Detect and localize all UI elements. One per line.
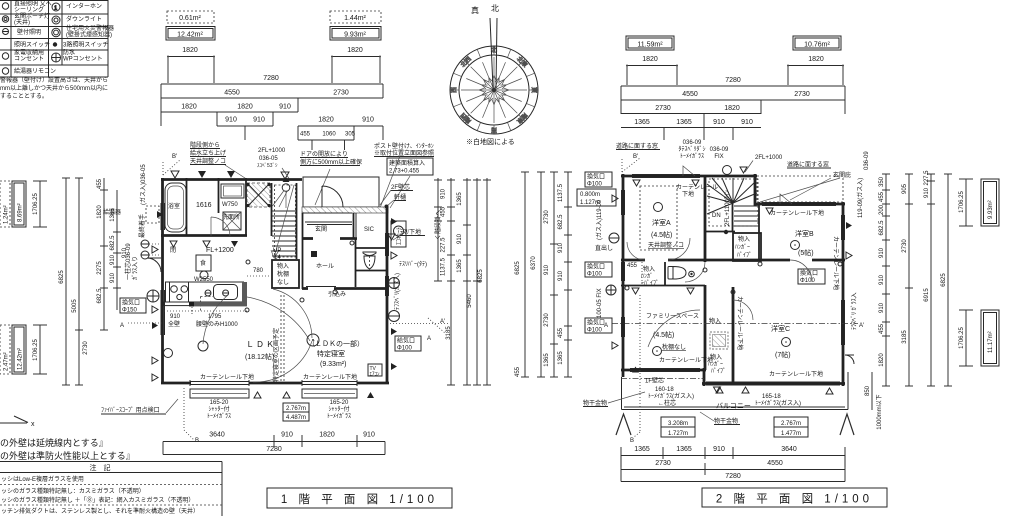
svg-text:Φ150: Φ150 (122, 308, 137, 314)
p1 left dim line 5005/2730 (75, 178, 83, 385)
leader lines (225, 156, 410, 208)
svg-text:ダウンライト: ダウンライト (66, 15, 102, 23)
svg-text:910: 910 (363, 432, 375, 439)
svg-text:く階段掛へ: く階段掛へ (434, 210, 442, 240)
legend note text (0, 76, 108, 100)
svg-text:1820: 1820 (237, 104, 253, 111)
svg-text:2.73+0.455: 2.73+0.455 (389, 169, 420, 175)
svg-text:910: 910 (225, 117, 237, 124)
vent circle symbols (389, 278, 400, 289)
p1 stair dashed upper outline (275, 185, 296, 257)
svg-text:6915: 6915 (924, 288, 930, 302)
p1 left wall (161, 178, 164, 384)
p1 bedroom labels (308, 339, 364, 368)
svg-text:7280: 7280 (725, 77, 741, 84)
p1 right dim line A (434, 178, 442, 281)
p1 right dim line B (447, 178, 455, 385)
svg-text:3路照明スイッチ: 3路照明スイッチ (63, 41, 108, 49)
svg-text:ﾊﾟｲﾌﾟ: ﾊﾟｲﾌﾟ (737, 252, 752, 259)
svg-text:910: 910 (741, 119, 753, 126)
p2 curtain label A (676, 184, 718, 198)
svg-text:910: 910 (281, 432, 293, 439)
svg-text:165-20: 165-20 (210, 400, 229, 406)
svg-text:6825: 6825 (478, 269, 484, 283)
svg-text:2730: 2730 (83, 341, 89, 355)
boxed measures left (661, 417, 695, 427)
svg-text:1820: 1820 (347, 47, 363, 54)
p1 switches small (245, 241, 354, 312)
svg-text:枕棚: 枕棚 (277, 270, 289, 278)
svg-text:ｰﾊﾟｲﾌﾟ: ｰﾊﾟｲﾌﾟ (641, 280, 659, 287)
svg-text:2275: 2275 (97, 261, 103, 275)
svg-text:洋室B: 洋室B (795, 229, 814, 238)
p1 entrance porch outline (303, 177, 379, 207)
svg-text:2730: 2730 (794, 91, 810, 98)
svg-text:コンセント: コンセント (14, 56, 44, 63)
p1 right dim line C (463, 178, 471, 385)
svg-text:南: 南 (491, 126, 497, 134)
p1 right dim line E (483, 178, 491, 385)
svg-text:2 階 平 面 図 1/100: 2 階 平 面 図 1/100 (716, 492, 873, 506)
svg-text:家電収納用: 家電収納用 (14, 49, 44, 57)
svg-text:2FL+1000: 2FL+1000 (755, 155, 783, 161)
svg-text:ファミリースペース: ファミリースペース (646, 313, 699, 320)
p2 closet hatched (710, 332, 728, 349)
area box 11.59 double (626, 36, 674, 50)
compass center dot (492, 88, 496, 92)
svg-text:7280: 7280 (725, 473, 741, 480)
svg-text:下地: 下地 (682, 190, 694, 198)
svg-text:910: 910 (879, 247, 885, 258)
area box 0.61 dashed (167, 11, 214, 23)
svg-text:B′: B′ (172, 154, 178, 160)
svg-text:1365: 1365 (676, 119, 692, 126)
svg-text:910: 910 (457, 233, 463, 244)
svg-text:ﾄｰﾒｲｶﾞﾗｽ(ガス入): ﾄｰﾒｲｶﾞﾗｽ(ガス入) (755, 399, 801, 407)
p1 kitchen counter (166, 282, 244, 302)
svg-text:カーテンレール下地: カーテンレール下地 (769, 370, 823, 378)
svg-text:1365: 1365 (544, 353, 550, 367)
svg-text:ッシのガラス種類特記無し ＋「⑧」表記：網入カスミガラス（不: ッシのガラス種類特記無し ＋「⑧」表記：網入カスミガラス（不透明） (1, 496, 194, 504)
p2 bottom-left window glazing (630, 369, 700, 372)
svg-text:カーテンレール下地: カーテンレール下地 (200, 373, 254, 381)
svg-text:2730: 2730 (902, 239, 908, 253)
p2 wall room C left (732, 287, 735, 384)
svg-text:玄関ポーチ灯: 玄関ポーチ灯 (14, 12, 50, 20)
svg-text:側方に500mm以上確保: 側方に500mm以上確保 (300, 158, 362, 166)
svg-text:ﾌｧｲﾊﾞｰｽｺｰﾌﾟ 用点検口: ﾌｧｲﾊﾞｰｽｺｰﾌﾟ 用点検口 (101, 406, 160, 414)
svg-text:玄関: 玄関 (315, 225, 327, 233)
p2 toilet room walls (621, 262, 705, 286)
p2 stair top light (723, 166, 732, 175)
svg-text:ドアの開放により: ドアの開放により (300, 150, 348, 158)
p2 top wall right (755, 203, 845, 206)
notes table (0, 462, 222, 516)
svg-text:ﾄｰﾒｲｶﾞﾗｽ: ﾄｰﾒｲｶﾞﾗｽ (207, 413, 231, 420)
p2 stairs dashed outline (709, 179, 758, 226)
p1 kitchen fridge (196, 255, 211, 271)
svg-text:1365: 1365 (558, 351, 564, 365)
p2 right wall marks (846, 252, 852, 259)
p1 wall below genkan (302, 237, 357, 240)
p2 right wall windows (842, 215, 845, 345)
svg-text:1365: 1365 (457, 259, 463, 273)
p1 toilet fixture (363, 252, 376, 256)
svg-text:W750: W750 (222, 202, 238, 208)
area box 1.44 dashed (330, 11, 381, 23)
svg-text:物干金物: 物干金物 (714, 417, 738, 425)
right pair upper (959, 179, 973, 226)
svg-text:3.208m: 3.208m (668, 421, 688, 427)
svg-text:455: 455 (515, 366, 521, 377)
p1 toilet room top wall (355, 247, 388, 249)
svg-text:(18.12帖): (18.12帖) (245, 352, 274, 361)
svg-text:165-18: 165-18 (762, 394, 781, 400)
svg-text:4.487m: 4.487m (286, 415, 306, 421)
svg-text:3185: 3185 (902, 330, 908, 344)
svg-text:ｼｬｯﾀｰ付: ｼｬｯﾀｰ付 (208, 405, 229, 413)
svg-text:1365: 1365 (457, 192, 463, 206)
svg-text:ｶﾞﾗｽ入り: ｶﾞﾗｽ入り (132, 256, 139, 280)
svg-text:0.800m: 0.800m (580, 192, 600, 198)
p2 room B labels (795, 229, 814, 257)
svg-text:2FL+1100ﾗｲﾝ: 2FL+1100ﾗｲﾝ (724, 190, 731, 226)
p2 spine wall vertical (704, 176, 707, 370)
svg-text:物入: 物入 (738, 235, 750, 243)
p2 balcony triangles (716, 387, 723, 393)
svg-text:(5帖): (5帖) (798, 248, 814, 257)
p2 left dim line 2 (537, 172, 545, 377)
svg-text:(9.33m²): (9.33m²) (320, 361, 346, 368)
p1 top wall (161, 178, 302, 181)
A' section marks (390, 318, 448, 333)
svg-text:なし: なし (277, 279, 289, 286)
compass outer circle (450, 46, 538, 134)
p2 stairs winder fan (707, 178, 757, 214)
svg-text:換気口: 換気口 (122, 299, 140, 307)
svg-text:注 記: 注 記 (90, 463, 111, 472)
svg-text:Φ100: Φ100 (587, 182, 602, 188)
p1 wall below hall (302, 287, 388, 290)
svg-text:ﾄｰﾒｲｶﾞﾗｽ: ﾄｰﾒｲｶﾞﾗｽ (327, 413, 351, 420)
svg-text:B: B (630, 438, 634, 444)
svg-text:FL+1200: FL+1200 (206, 247, 234, 254)
svg-text:682.5: 682.5 (97, 288, 103, 304)
svg-text:6825: 6825 (941, 273, 947, 287)
svg-text:Φ100: Φ100 (397, 346, 412, 352)
p2 toilet fixture (668, 267, 673, 280)
p1 right wall (386, 207, 389, 384)
svg-text:天井調整ノコ: 天井調整ノコ (190, 157, 226, 165)
svg-text:Φ100: Φ100 (587, 272, 602, 278)
svg-text:910: 910 (713, 446, 725, 453)
svg-text:910: 910 (170, 314, 181, 320)
p1 stair left wall (271, 183, 273, 236)
p1 vanity box (223, 212, 241, 230)
svg-text:カーテンレール下地: カーテンレール下地 (736, 296, 744, 350)
svg-text:1706.25: 1706.25 (33, 193, 39, 215)
p2 A-A section dash-dot (612, 323, 858, 325)
svg-text:ｴｺｷｭｰﾄ: ｴｺｷｭｰﾄ (396, 227, 403, 245)
svg-text:枕棚なし: 枕棚なし (662, 343, 686, 351)
svg-text:換気口: 換気口 (587, 173, 605, 181)
svg-text:6370: 6370 (531, 256, 537, 270)
svg-text:3640: 3640 (781, 446, 797, 453)
p2 left dim line 1 (521, 172, 529, 377)
svg-text:12.42m²: 12.42m² (177, 32, 203, 39)
p1 wall genkan/SIC (353, 213, 355, 238)
p1 left dim line inner (100, 178, 108, 330)
svg-text:682.5: 682.5 (879, 220, 885, 236)
p2 left wall (622, 174, 625, 377)
svg-text:1365: 1365 (676, 446, 692, 453)
x axis marker (0, 416, 28, 423)
svg-text:9.93m²: 9.93m² (344, 32, 366, 39)
svg-text:物入: 物入 (709, 317, 721, 325)
svg-text:6825: 6825 (59, 270, 65, 284)
svg-text:(7帖): (7帖) (775, 350, 791, 359)
note post/interphone (374, 142, 434, 157)
svg-text:1.24m²: 1.24m² (4, 205, 10, 224)
svg-text:1820: 1820 (182, 47, 198, 54)
area box 10.76 double (793, 36, 841, 50)
svg-text:真: 真 (471, 5, 479, 15)
p1 kitchen half wall hatch (164, 302, 190, 306)
svg-text:1 階 平 面 図 1/100: 1 階 平 面 図 1/100 (281, 492, 438, 506)
p1 wall wash/laundry divider (218, 178, 220, 213)
svg-text:ﾀﾃｽﾍﾞﾘﾀﾞｼ: ﾀﾃｽﾍﾞﾘﾀﾞｼ (678, 146, 705, 153)
svg-text:住宅用火災警報器: 住宅用火災警報器 (66, 24, 114, 32)
legend icons column2 (52, 3, 61, 62)
tv/eco boxes inside near wall (368, 364, 382, 376)
svg-text:780: 780 (253, 268, 264, 274)
p2 left wall symbols (609, 233, 619, 243)
svg-text:2730: 2730 (544, 210, 550, 224)
svg-text:給湯器リモコン: 給湯器リモコン (14, 67, 56, 75)
svg-text:305: 305 (345, 132, 356, 138)
svg-text:ﾃｽﾘﾊﾞｰ(ﾀﾃ): ﾃｽﾘﾊﾞｰ(ﾀﾃ) (399, 261, 427, 268)
p1 left dim line outer 6825 (62, 178, 70, 385)
p1 stair right wall (296, 183, 298, 259)
svg-text:の外壁は延焼線内とする』: の外壁は延焼線内とする』 (0, 437, 108, 448)
svg-text:バルコニー: バルコニー (716, 402, 751, 410)
compass inner circle (459, 55, 529, 125)
p1 bath door arc (211, 217, 230, 236)
p2 wall triangles (633, 180, 640, 186)
p2 step wall bottom (703, 368, 706, 386)
p1 stairwell top fixture (282, 184, 290, 192)
p2 balcony texts (648, 387, 801, 407)
B section dotted (184, 388, 194, 440)
svg-text:西: 西 (451, 87, 458, 93)
svg-text:の外壁は準防火性能以上とする』: の外壁は準防火性能以上とする』 (0, 450, 135, 461)
svg-text:160-18: 160-18 (655, 387, 674, 393)
note window type (678, 140, 705, 160)
p2 left dim line 4 (564, 172, 572, 377)
svg-text:警報器（壁付け）設置高さは、天井から: 警報器（壁付け）設置高さは、天井から (0, 76, 108, 84)
svg-text:ｼｬｯﾀｰ付: ｼｬｯﾀｰ付 (328, 405, 349, 413)
p2 balcony right dims (871, 372, 873, 410)
svg-text:物入: 物入 (643, 265, 655, 273)
svg-text:1000mm以下: 1000mm以下 (876, 394, 883, 429)
svg-text:防水: 防水 (63, 49, 75, 57)
svg-text:特定寝室: 特定寝室 (317, 349, 345, 358)
A section dashed (128, 322, 162, 324)
p2 right dim line D (944, 174, 952, 386)
svg-text:WPコンセント: WPコンセント (63, 56, 103, 63)
svg-text:軒樋: 軒樋 (394, 193, 406, 201)
p1 stair hatched square (247, 183, 270, 207)
svg-text:1820: 1820 (879, 353, 885, 367)
svg-text:※取付位置立面図参照: ※取付位置立面図参照 (374, 149, 434, 157)
svg-text:682.5: 682.5 (110, 235, 116, 251)
true north lines (490, 18, 493, 88)
p2 window swing bumps outside top (683, 166, 792, 204)
left wall circle symbols (141, 240, 149, 259)
svg-text:11.17m²: 11.17m² (988, 331, 994, 353)
svg-text:165-20: 165-20 (330, 400, 349, 406)
svg-text:910: 910 (362, 117, 374, 124)
kankiko box left (120, 298, 146, 313)
svg-text:ＬＤＫ: ＬＤＫ (246, 340, 276, 349)
svg-text:1706.25: 1706.25 (959, 191, 965, 213)
svg-text:1.477m: 1.477m (781, 431, 801, 437)
p2 room A dashed ceiling (640, 186, 677, 250)
ecocute unit (391, 221, 406, 247)
svg-text:2.767m: 2.767m (286, 406, 306, 412)
svg-text:換気口: 換気口 (587, 319, 605, 327)
p1 washer W750 (221, 184, 244, 198)
svg-text:ｴｱｺﾝ: ｴｱｺﾝ (370, 372, 381, 378)
left wall door arc (147, 258, 161, 272)
svg-text:道路に面する窓: 道路に面する窓 (616, 142, 658, 150)
p1 wall hall left (302, 213, 304, 289)
svg-text:1: 1 (54, 6, 57, 12)
p2 top right window glazing (762, 203, 836, 206)
right wall triangles (391, 218, 397, 225)
svg-text:036-09: 036-09 (864, 151, 870, 170)
svg-text:浴室: 浴室 (168, 202, 180, 210)
svg-text:FIX: FIX (714, 154, 723, 160)
p1 SIC shelf (355, 213, 357, 237)
svg-text:ﾊﾟｲﾌﾟ: ﾊﾟｲﾌﾟ (711, 368, 726, 375)
svg-text:Φ100: Φ100 (587, 328, 602, 334)
svg-text:mm以上離しかつ天井から500mm以内に: mm以上離しかつ天井から500mm以内に (0, 84, 108, 92)
svg-text:910: 910 (879, 302, 885, 313)
svg-text:1820: 1820 (318, 117, 334, 124)
p2 stairs treads right (734, 206, 759, 226)
svg-text:910: 910 (713, 119, 725, 126)
p2 kanki box 1 (585, 172, 612, 187)
svg-text:1706.25: 1706.25 (33, 339, 39, 361)
svg-text:シーリング: シーリング (14, 6, 44, 14)
svg-text:A: A (120, 323, 124, 329)
p1 genkan upper step lines (302, 213, 352, 225)
svg-text:1.44m²: 1.44m² (344, 15, 366, 22)
svg-text:910: 910 (253, 117, 265, 124)
svg-text:ﾄｰﾒｲｶﾞﾗｽ(ガス入): ﾄｰﾒｲｶﾞﾗｽ(ガス入) (648, 392, 694, 400)
area box 9.93 double (330, 27, 381, 41)
svg-text:9.93m²: 9.93m² (988, 200, 994, 219)
svg-text:455: 455 (558, 327, 564, 338)
svg-text:200: 200 (879, 204, 885, 215)
p1 black node (311, 251, 317, 257)
left area box pair upper (0, 181, 10, 227)
svg-text:(天井): (天井) (14, 18, 30, 26)
svg-text:036-09: 036-09 (710, 147, 729, 153)
p2 left wall windows (622, 190, 625, 337)
svg-text:5005: 5005 (72, 299, 78, 313)
svg-text:洗面所: 洗面所 (222, 213, 240, 221)
svg-text:給気口: 給気口 (397, 337, 415, 345)
p2 toilet room labels (641, 265, 659, 287)
svg-text:4550: 4550 (682, 91, 698, 98)
svg-text:換気口: 換気口 (587, 263, 605, 271)
svg-text:道路に面する窓: 道路に面する窓 (787, 161, 829, 169)
svg-text:(ガス入)036-05: (ガス入)036-05 (139, 164, 147, 205)
svg-text:建築面積算入: 建築面積算入 (389, 159, 425, 167)
p2 right dim line A (882, 174, 890, 386)
svg-text:2730: 2730 (544, 313, 550, 327)
p2 top wall window glazing left (632, 175, 700, 178)
svg-text:Φ100: Φ100 (800, 278, 815, 284)
svg-text:2730: 2730 (655, 105, 671, 112)
p1 wall washroom right (245, 178, 247, 236)
svg-text:1060: 1060 (322, 132, 336, 138)
boxed measures (283, 403, 309, 412)
p2 room A labels (651, 218, 672, 239)
p1 bottom wall solid segments (161, 382, 389, 385)
svg-text:910: 910 (558, 242, 564, 253)
svg-text:2F壁芯: 2F壁芯 (391, 183, 410, 191)
p1 bottom window 1 (190, 380, 249, 386)
svg-text:1616: 1616 (196, 202, 212, 209)
svg-text:ッシはLow-E複層ガラスを使用: ッシはLow-E複層ガラスを使用 (1, 475, 84, 483)
svg-text:3640: 3640 (209, 432, 225, 439)
svg-text:全壁: 全壁 (168, 320, 180, 328)
svg-text:UP: UP (273, 248, 281, 254)
title 2F (702, 488, 887, 507)
note door opening (300, 150, 362, 166)
p1 partition dashed line (281, 295, 284, 381)
svg-text:11.59m²: 11.59m² (637, 42, 663, 49)
p2 stair bottom wall (705, 231, 735, 233)
svg-text:1706.25: 1706.25 (959, 327, 965, 349)
p2 bottom wall right (702, 382, 845, 385)
p1 hall sliding door line (306, 286, 336, 288)
svg-text:することとする。: することとする。 (0, 93, 48, 100)
p1 left dim line innermost (113, 190, 121, 310)
svg-text:ﾊﾝｶﾞｰ: ﾊﾝｶﾞｰ (735, 244, 750, 251)
p1 bathtub (165, 183, 186, 232)
left area box pair lower (0, 325, 10, 374)
p1 stair treads (272, 211, 296, 256)
svg-text:特定寝室の区画予定: 特定寝室の区画予定 (272, 328, 280, 382)
svg-text:7280: 7280 (266, 446, 282, 453)
p1 wall below bath (161, 234, 247, 237)
p1 right wall windows (386, 233, 389, 296)
p1 bottom window 2 (302, 380, 357, 386)
svg-text:3185: 3185 (446, 326, 452, 340)
svg-text:A′: A′ (440, 319, 446, 325)
boxed measures right (774, 417, 808, 427)
svg-text:119-09(ガス入): 119-09(ガス入) (856, 178, 864, 218)
svg-text:給湯器: 給湯器 (103, 208, 121, 216)
p1 top-right hatched wall band (302, 207, 388, 213)
svg-text:DN: DN (712, 213, 721, 219)
p2 right wall (842, 202, 845, 386)
svg-text:(ガス入)119-09: (ガス入)119-09 (595, 199, 603, 240)
